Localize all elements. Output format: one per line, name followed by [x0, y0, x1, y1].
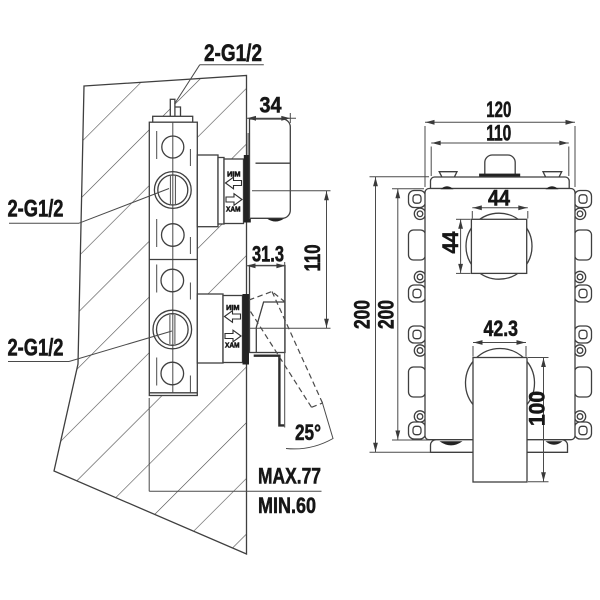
svg-text:MIN: MIN [227, 170, 241, 179]
lower escutcheon (side) [250, 266, 286, 353]
svg-text:MAX.77: MAX.77 [258, 464, 321, 489]
upper trim seal bar [244, 155, 251, 223]
bottom plate [431, 440, 568, 453]
body bottom cap line [149, 392, 197, 394]
dim 110 (side, vertical) [252, 190, 331, 192]
port circle big 2 (G1/2 inlet) [153, 310, 192, 349]
lever hub [256, 302, 285, 353]
screw clip trapezoid left [439, 172, 457, 178]
wall section (hatched) [54, 76, 247, 555]
port circle small 3 [161, 269, 184, 292]
lower MAX arrow [225, 330, 241, 342]
svg-text:200: 200 [350, 300, 375, 329]
lever dashed (tilted 25 deg) [249, 292, 323, 408]
plaster ring edge (grey strip) [247, 133, 249, 157]
stem base (dark) [479, 174, 520, 178]
upper cartridge block [197, 155, 218, 227]
svg-text:25°: 25° [295, 420, 321, 445]
svg-text:2-G1/2: 2-G1/2 [204, 40, 262, 67]
plate screw shadows [441, 186, 454, 189]
upper escutcheon / thermostat handle (side) [249, 119, 290, 218]
upper MIN arrow [226, 177, 242, 189]
valve body top cap [153, 116, 193, 122]
upper MAX arrow [226, 194, 242, 206]
svg-text:44: 44 [488, 186, 511, 211]
svg-text:MAX: MAX [226, 205, 241, 214]
svg-text:34: 34 [260, 93, 283, 118]
lower cartridge arrow plate [223, 296, 243, 363]
upper cartridge arrow plate [224, 159, 244, 224]
valve body [149, 122, 197, 395]
body center line [172, 122, 174, 393]
svg-text:110: 110 [300, 245, 325, 272]
mounting ears left [409, 191, 426, 440]
bore tick lines [157, 131, 191, 393]
25 deg sector [284, 332, 286, 428]
upper valve square [471, 219, 526, 273]
body divider line [149, 259, 197, 261]
port circle small 1 [162, 136, 184, 158]
MAX / MIN depth [148, 398, 150, 491]
lower MIN arrow [225, 311, 241, 323]
svg-text:100: 100 [525, 391, 550, 426]
top stem cover [485, 155, 515, 177]
dim 200 outer [370, 176, 430, 178]
dim 200 inner [392, 188, 424, 190]
svg-text:200: 200 [374, 300, 399, 329]
lower cartridge block [197, 294, 223, 363]
svg-text:31.3: 31.3 [252, 242, 284, 267]
svg-text:44: 44 [438, 231, 463, 254]
shadow under upper escutcheon [267, 219, 284, 222]
svg-text:MIN: MIN [226, 303, 240, 312]
svg-text:120: 120 [486, 97, 511, 122]
lower valve circle [466, 349, 535, 418]
port circle small 4 [161, 362, 184, 385]
svg-text:2-G1/2: 2-G1/2 [8, 196, 64, 223]
svg-text:110: 110 [486, 120, 511, 145]
top mounting plate [431, 177, 570, 189]
body box [425, 189, 575, 440]
lever handle (down position) [254, 356, 284, 426]
svg-text:2-G1/2: 2-G1/2 [8, 335, 64, 362]
svg-text:MAX: MAX [225, 341, 240, 350]
port circle small 2 [162, 224, 185, 247]
screw clip trapezoid right [543, 172, 562, 178]
svg-text:42.3: 42.3 [484, 316, 519, 341]
svg-text:MIN.60: MIN.60 [258, 493, 316, 518]
upper valve circle [466, 213, 532, 279]
valve stem (top inlet) [170, 99, 175, 117]
mounting ears right [574, 191, 591, 440]
spout outlet box [473, 358, 527, 483]
port circle big 1 (G1/2 inlet) [154, 172, 191, 209]
lower trim seal bar [243, 294, 250, 365]
dim 44 vertical [456, 218, 471, 220]
dim 100 [528, 357, 549, 359]
